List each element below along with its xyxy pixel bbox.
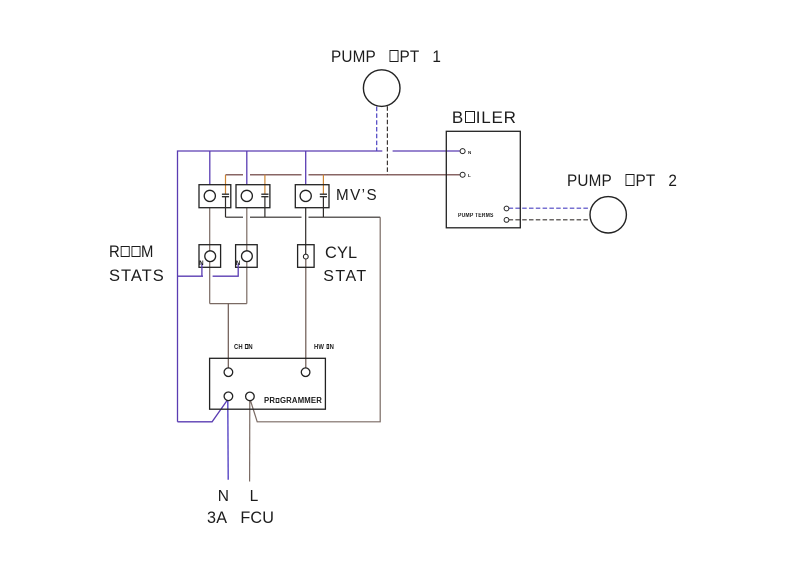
label boiler L xyxy=(468,174,471,179)
wire brown stat U-link xyxy=(210,262,247,304)
label CH ON xyxy=(234,344,253,351)
wire maroon L bus xyxy=(226,174,460,176)
valve MV3 box xyxy=(295,185,329,208)
room stat 2 box xyxy=(236,245,258,268)
label PROGRAMMER xyxy=(264,396,322,405)
wire purple main frame (top N bus + left vertical) xyxy=(178,151,460,422)
label HW ON xyxy=(314,344,334,351)
room stat 1 box xyxy=(199,245,221,268)
wire purple room stats feed into stat1 N xyxy=(178,264,204,277)
svg-text:N: N xyxy=(199,261,203,267)
label PUMP OPT 2 xyxy=(567,172,677,189)
valve MV3 capacitor lead xyxy=(322,197,324,218)
boiler pump terminal 1 xyxy=(504,206,509,211)
label boiler N xyxy=(468,151,471,156)
valve MV1 capacitor plates xyxy=(222,194,229,197)
svg-text:N: N xyxy=(236,261,240,267)
cylinder stat circle xyxy=(303,254,308,259)
valve MV2 motor circle xyxy=(241,190,252,201)
boiler box xyxy=(446,131,520,228)
wire brown MV1 to stat1 xyxy=(209,208,211,251)
label PUMP OPT 1 xyxy=(331,48,441,65)
pump option 2 circle xyxy=(590,197,626,233)
wire dashed blue pump terms upper xyxy=(509,207,590,209)
wire purple room stats feed into stat2 N xyxy=(213,264,239,277)
wire blue N down to FCU xyxy=(227,401,229,480)
wire dashed dark pump1 right lead xyxy=(386,106,388,175)
label CYL xyxy=(325,244,357,261)
valve MV2 capacitor plates xyxy=(261,194,268,197)
valve MV2 capacitor lead xyxy=(264,197,266,218)
valve MV1 motor circle xyxy=(204,190,215,201)
label L xyxy=(250,489,259,505)
wire orange drop to MV3 capacitor xyxy=(322,175,324,194)
label BOILER xyxy=(452,109,517,126)
programmer L terminal xyxy=(246,392,255,401)
programmer CH ON terminal xyxy=(224,368,233,377)
wire brown right loop capacitor bus to programmer L terminal xyxy=(251,217,381,422)
wire brown feed to CH ON terminal xyxy=(227,304,229,368)
wire black MV3 to CYL stat xyxy=(305,208,307,255)
label ROOM xyxy=(109,244,154,261)
wire dashed blue pump1 left lead xyxy=(376,107,378,151)
wire black capacitor common bus xyxy=(226,216,381,218)
programmer box xyxy=(210,358,326,409)
valve MV3 capacitor plates xyxy=(320,194,327,197)
label 3A FCU xyxy=(207,510,274,527)
valve MV2 box xyxy=(236,185,270,208)
boiler N terminal xyxy=(460,149,465,154)
wire orange drop to MV1 capacitor xyxy=(225,175,227,194)
wire blue drop to MV1 xyxy=(209,151,211,185)
wire blue drop to MV2 xyxy=(246,151,248,185)
programmer HW ON terminal xyxy=(301,368,310,377)
boiler pump terminal 2 xyxy=(504,218,509,223)
label MV'S xyxy=(336,188,378,204)
cylinder stat box xyxy=(298,245,315,268)
label N xyxy=(218,489,229,505)
programmer N terminal xyxy=(224,392,233,401)
wire dashed dark pump terms lower xyxy=(509,219,591,221)
wire brown MV2 to stat2 xyxy=(246,208,248,251)
label PUMP TERMS xyxy=(458,213,494,219)
wire blue drop to MV3 xyxy=(305,151,307,185)
wire brown L down to FCU xyxy=(249,401,251,482)
boiler L terminal xyxy=(460,172,465,177)
room stat 1 circle xyxy=(205,251,216,262)
wire brown CYL stat to HW ON xyxy=(305,259,307,368)
label STAT xyxy=(323,269,368,285)
wire orange drop to MV2 capacitor xyxy=(264,175,266,194)
wire purple bottom run to programmer N terminal xyxy=(178,401,227,422)
valve MV3 motor circle xyxy=(300,190,311,201)
label STATS xyxy=(109,268,165,285)
room stat 2 circle xyxy=(242,251,253,262)
pump option 1 circle xyxy=(363,70,400,107)
valve MV1 capacitor lead xyxy=(225,197,227,218)
valve MV1 box xyxy=(199,185,231,208)
